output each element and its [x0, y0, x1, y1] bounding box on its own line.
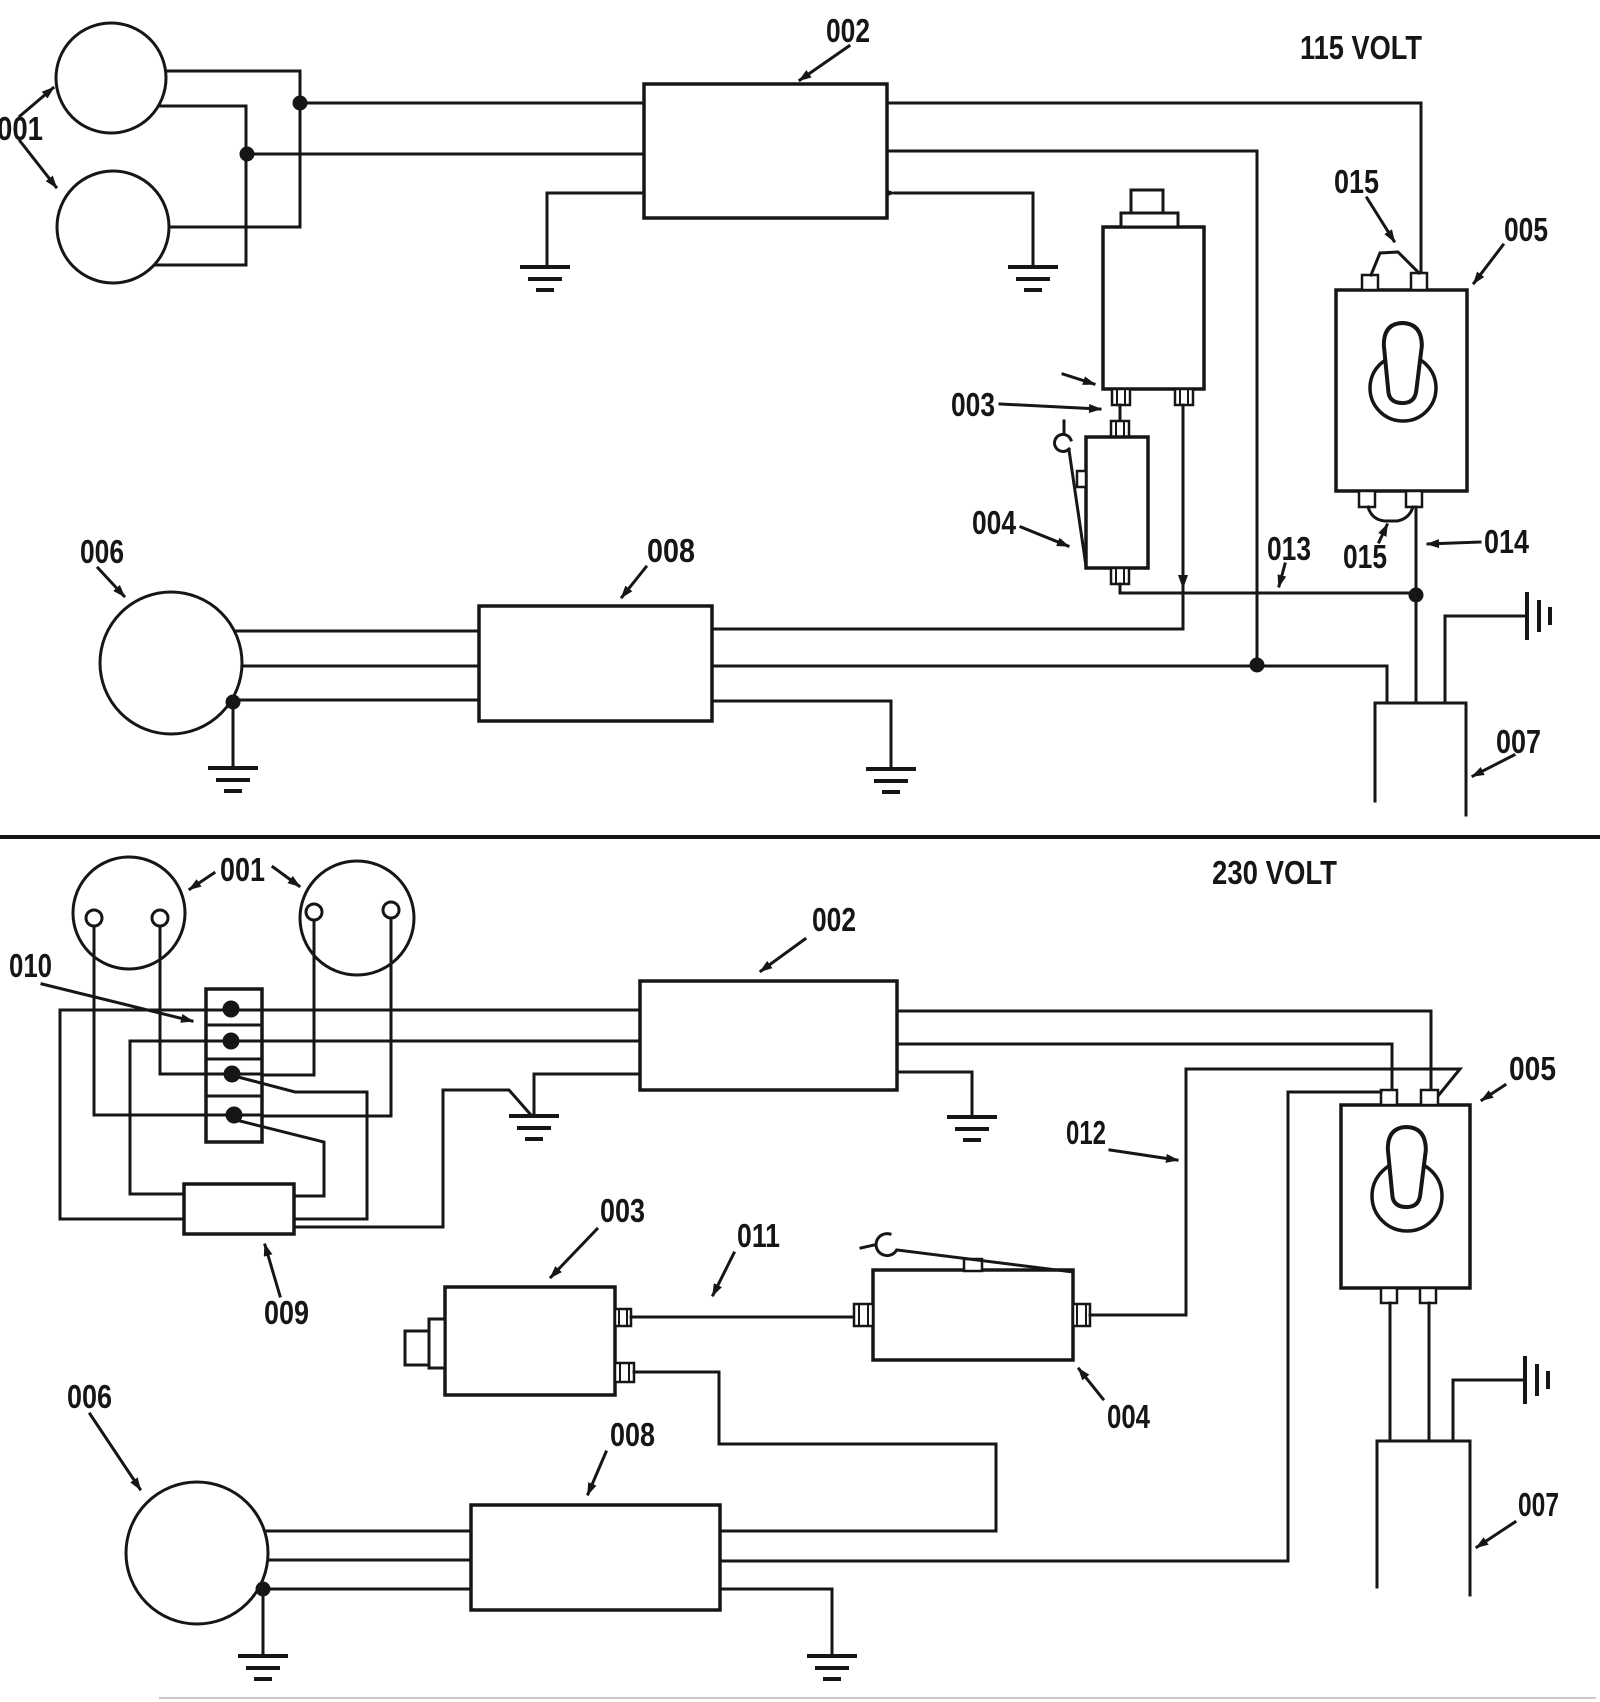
wire: box 002 top right to switch 005 right terminal: [887, 103, 1421, 273]
wire 011 link 003 to 004: [631, 1316, 854, 1319]
svg-text:003: 003: [600, 1192, 645, 1229]
arrow from 002 label to box: [800, 46, 849, 80]
wire: switch bottom right to box 007: [1415, 507, 1418, 703]
ground G4 under motor 006: [210, 768, 256, 791]
svg-text:012: 012: [1066, 1114, 1106, 1151]
wire: 003 right terminal down and left to box 008: [712, 405, 1183, 629]
terminal dot row4: [226, 1107, 243, 1124]
wire row2 through strip: [206, 1040, 262, 1043]
svg-text:008: 008: [610, 1416, 655, 1453]
switch 005 body: [1336, 290, 1467, 491]
component 003 top cap wide: [1121, 213, 1178, 227]
component 004 left side lug: [1077, 471, 1086, 487]
box 008 harness 230V: [471, 1505, 720, 1610]
wire: motor 006 mid lead: [235, 1559, 471, 1562]
arrow from 005 label to switch: [1474, 245, 1503, 283]
svg-text:004: 004: [972, 504, 1017, 541]
svg-text:009: 009: [264, 1294, 309, 1331]
ground G3 rotated right of switch: [1445, 594, 1550, 703]
switch 005 toggle handle: [1386, 1126, 1427, 1207]
arrow from 001 to left circle: [190, 873, 214, 889]
wire: left circle pin1 to terminal strip row4: [94, 926, 206, 1115]
wire: motor ground stub: [232, 702, 235, 767]
receptacle 001 upper circle: [56, 23, 166, 133]
wire: 003 bottom terminal to box 008 top wire: [634, 1372, 996, 1531]
wire: right circle pin2 to terminal strip row4: [262, 918, 391, 1116]
component 004 bottom terminal: [1111, 568, 1129, 584]
faint page edge line: [160, 1697, 1595, 1699]
wire: motor ground stub: [262, 1589, 265, 1655]
ground G1 below box 002 left: [522, 267, 568, 290]
arrow from 015 top label to jumper: [1367, 198, 1394, 241]
svg-text:015: 015: [1334, 163, 1379, 200]
wire: box 008 mid right to box 007: [712, 666, 1387, 703]
arrow from 001 to right circle: [273, 867, 299, 886]
svg-text:003: 003: [951, 386, 995, 423]
svg-text:014: 014: [1484, 523, 1530, 560]
motor 006 circle 230V: [126, 1482, 268, 1624]
component 003 right bottom terminal: [615, 1363, 634, 1382]
svg-text:010: 010: [9, 947, 52, 984]
arrow from 012 label to wire: [1110, 1150, 1177, 1160]
box 009 relay: [184, 1184, 294, 1234]
wire: switch bottom right to box 007: [1428, 1303, 1431, 1441]
component 004 left terminal: [854, 1304, 873, 1326]
component 003 bottom left terminal: [1112, 389, 1130, 405]
receptacle 001 right circle: [300, 861, 414, 975]
ground G10 right of box 008: [809, 1656, 855, 1679]
wire: node L1 to box 002: [300, 102, 644, 105]
arrow from 002 label to box: [761, 939, 805, 971]
terminal strip divider 2: [206, 1058, 262, 1061]
wire: box 002 mid right to switch left terminal: [897, 1044, 1392, 1090]
svg-text:013: 013: [1267, 530, 1311, 567]
wire: terminal row1 to box 002 and down-left to box 009: [60, 1010, 640, 1219]
component 003 fill switch body: [1103, 227, 1204, 389]
wire: box 002 mid right to junction at box 008: [887, 151, 1257, 662]
terminal dot row3: [224, 1066, 241, 1083]
arrow from 010 label to strip: [42, 984, 192, 1021]
box 008 wiring harness: [479, 606, 712, 721]
arrow from 006 label to motor: [98, 568, 124, 596]
receptacle 001 left circle: [73, 857, 185, 969]
wire: motor 006 top lead: [235, 1530, 471, 1533]
arrow from 006 label to motor: [90, 1414, 140, 1489]
wire: box 009 to left ground via riser: [294, 1090, 531, 1227]
junction dot on mid wire: [1250, 658, 1265, 673]
ground G9 rotated right of switch: [1453, 1358, 1548, 1441]
svg-text:006: 006: [80, 533, 124, 570]
component 004 lever arm: [861, 1234, 1073, 1272]
component 004 lever hook: [1055, 421, 1086, 566]
junction dot at motor ground: [226, 695, 241, 710]
wire: dot3 diagonal to box 009 right: [238, 1077, 367, 1219]
arrow from 015 bottom label to jumper: [1379, 525, 1387, 542]
box 002 timer 230V: [640, 981, 897, 1090]
component 004 micro switch body: [1086, 437, 1148, 568]
switch 005 top left terminal: [1362, 275, 1378, 290]
wire row3 through strip: [206, 1073, 262, 1076]
switch 005 bottom left terminal: [1359, 491, 1375, 507]
arrow from 007 label to box: [1477, 1522, 1515, 1547]
component 004 pressure switch body: [873, 1270, 1073, 1360]
switch 005 bottom left terminal: [1381, 1288, 1397, 1303]
arrow from 001 to lower circle: [20, 141, 56, 187]
wire: box 008 mid right to switch left terminal riser: [720, 1092, 1381, 1561]
motor 006 circle: [100, 592, 242, 734]
switch 005 top right terminal: [1421, 1090, 1438, 1105]
svg-text:007: 007: [1518, 1486, 1559, 1523]
ground G5 under box 008: [868, 769, 914, 792]
arrow unlabeled at 003 lower corner: [1063, 374, 1094, 384]
wire: node L2 to box 002: [247, 153, 644, 156]
svg-text:015: 015: [1343, 538, 1387, 575]
component 004 top terminal: [1111, 421, 1129, 437]
wire: box 008 bottom right ground stub: [720, 1589, 832, 1655]
wire: 004 bottom to junction node 013: [1120, 584, 1416, 593]
wire: motor 006 mid lead: [210, 665, 479, 668]
component 003 right top terminal: [615, 1309, 631, 1326]
component 003 plug outer: [405, 1331, 429, 1365]
junction dot node L2: [240, 147, 255, 162]
arrow from 003 label to box: [551, 1229, 597, 1277]
component 004 top button: [964, 1259, 982, 1271]
ground G2 right of box 002: [1010, 267, 1056, 290]
svg-text:230 VOLT: 230 VOLT: [1212, 854, 1337, 891]
arrow from 004 label to lever: [1021, 527, 1068, 546]
wire: box 002 right ground stub: [895, 193, 1033, 266]
wire: right circle pin1 to terminal strip row3: [262, 920, 314, 1075]
wire: box 002 right ground stub: [897, 1072, 972, 1116]
wire: link 003 to 004: [1119, 405, 1122, 421]
ground G8 under motor 006: [240, 1656, 286, 1679]
switch 005 top right terminal: [1411, 273, 1427, 290]
terminal dot row2: [223, 1033, 240, 1050]
wire: motor 006 bottom lead: [210, 699, 479, 702]
switch 005 body 230V: [1341, 1105, 1470, 1288]
svg-text:115 VOLT: 115 VOLT: [1300, 29, 1422, 66]
arrow from 014 label to wire: [1428, 542, 1480, 544]
box 007 plug housing 230V: [1377, 1441, 1470, 1595]
ground G6 left of box 002: [511, 1116, 557, 1139]
receptacle 001 right pin2: [383, 902, 399, 918]
component 004 right terminal: [1073, 1304, 1090, 1326]
arrow from 013 label to wire: [1279, 564, 1285, 586]
switch 005 top left terminal: [1381, 1090, 1397, 1105]
receptacle 001 lower circle: [57, 171, 169, 283]
wire: box 008 bottom right ground stub: [712, 701, 891, 768]
separator line: [0, 835, 1600, 839]
wire row4 through strip: [206, 1114, 262, 1117]
component 003 plug inner: [429, 1319, 445, 1368]
receptacle 001 right pin1: [306, 904, 322, 920]
svg-text:007: 007: [1496, 723, 1541, 760]
terminal strip 010 body: [206, 989, 262, 1142]
svg-text:005: 005: [1504, 211, 1548, 248]
svg-text:008: 008: [647, 532, 695, 569]
arrow from 001 to upper circle: [20, 88, 53, 116]
junction dot at motor ground: [256, 1582, 271, 1597]
wire row1 through strip: [206, 1009, 262, 1012]
switch 005 bottom right terminal: [1406, 491, 1422, 507]
ground G7 right of box 002: [949, 1117, 995, 1140]
wire: ground stub to box 002 left: [547, 193, 644, 266]
switch 005 toggle circle: [1372, 1161, 1442, 1231]
wire: dot4 diagonal to box 009 right: [240, 1121, 324, 1196]
wire: receptacle A to vertical bus x=300: [160, 71, 300, 227]
wire: box 002 top right to switch right terminal: [897, 1011, 1431, 1090]
component 003 bottom right terminal: [1175, 389, 1193, 405]
wire: switch bottom left to box 007: [1389, 1303, 1392, 1441]
svg-text:011: 011: [737, 1217, 780, 1254]
svg-text:004: 004: [1107, 1398, 1151, 1435]
svg-text:006: 006: [67, 1378, 112, 1415]
receptacle 001 left pin2: [152, 910, 168, 926]
wire: left circle pin2 to terminal strip row3: [160, 926, 206, 1074]
svg-text:001: 001: [220, 851, 265, 888]
wire: box 008 top right joins 003 riser: [720, 1530, 996, 1533]
box 007 plug housing: [1375, 703, 1466, 815]
switch 005 bottom right terminal: [1420, 1288, 1436, 1303]
junction dot node 014: [1409, 588, 1424, 603]
arrow from 007 label to box: [1473, 755, 1514, 776]
arrowhead on wire at crossing: [1178, 575, 1188, 589]
wire: receptacle A lower to vertical bus x=246: [152, 106, 246, 265]
svg-text:005: 005: [1509, 1050, 1556, 1087]
terminal strip divider 1: [206, 1024, 262, 1027]
arrow from 003 label to link: [1000, 404, 1100, 409]
wire: box 002 ground stub left: [534, 1074, 640, 1115]
arrow from 004 label to box: [1079, 1369, 1103, 1399]
arrow from 009 label to box: [265, 1245, 280, 1296]
component 003 motor start relay: [445, 1287, 615, 1395]
arrow from 008 label to box: [622, 567, 646, 597]
wire: motor 006 bottom lead: [235, 1588, 471, 1591]
arrow from 005 label to switch: [1482, 1085, 1505, 1100]
wire: terminal row2 to box 002 and down-left to box 009: [130, 1041, 640, 1194]
arrow from 008 label to box: [588, 1452, 606, 1494]
switch 005 toggle handle: [1382, 322, 1423, 403]
arrow from 011 label to wire: [713, 1253, 734, 1295]
box 002 timer: [644, 84, 887, 218]
receptacle 001 left pin1: [86, 910, 102, 926]
wire: motor 006 top lead: [210, 630, 479, 633]
wire 012 from 004 right to switch right terminal: [1090, 1069, 1460, 1315]
jumper 015 top: [1371, 252, 1419, 275]
terminal strip divider 3: [206, 1095, 262, 1098]
terminal dot row1: [223, 1001, 240, 1018]
component 003 top cap small: [1131, 190, 1163, 227]
junction dot node L1: [293, 96, 308, 111]
svg-text:002: 002: [826, 12, 870, 49]
svg-text:002: 002: [812, 901, 856, 938]
switch 005 toggle circle: [1370, 355, 1436, 421]
jumper 015 bottom: [1368, 507, 1413, 521]
